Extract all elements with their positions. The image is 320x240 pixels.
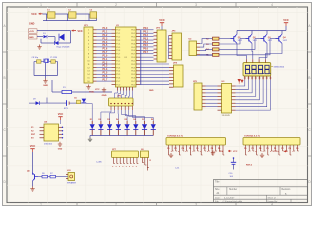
svg-text:P1.0: P1.0	[103, 55, 108, 57]
svg-text:P0.0: P0.0	[131, 57, 135, 59]
svg-text:P6: P6	[296, 148, 298, 150]
wire VCC rail to caps	[43, 13, 91, 15]
svg-text:Rege 1N4148: Rege 1N4148	[57, 46, 71, 48]
svg-text:2: 2	[115, 203, 117, 207]
capacitor C1	[47, 10, 55, 19]
svg-text:1: 1	[40, 203, 42, 207]
svg-text:VCC: VCC	[31, 12, 37, 16]
ground (JP1)	[86, 85, 100, 92]
LED D5	[124, 119, 129, 135]
wire display bottom pins	[244, 76, 272, 80]
battery BT1	[64, 100, 69, 110]
svg-text:D7: D7	[142, 119, 144, 121]
net label (C10 right)	[246, 165, 253, 167]
svg-text:P0: P0	[167, 148, 169, 150]
connector JP5	[193, 81, 206, 110]
power port (display left)	[238, 79, 242, 84]
capacitor C10	[231, 157, 236, 169]
resistor R1	[62, 87, 72, 93]
resistor R6	[42, 173, 48, 178]
svg-text:9012: 9012	[268, 40, 272, 42]
crystal Y1	[44, 59, 49, 63]
svg-text:P0.3: P0.3	[131, 67, 135, 69]
svg-text:D8: D8	[151, 119, 153, 121]
net labels P1.0-P1.7	[103, 28, 108, 81]
connector JP6 LED bar	[109, 96, 134, 110]
svg-text:P2: P2	[252, 148, 254, 150]
resistor R5	[206, 53, 219, 56]
svg-text:P1.0: P1.0	[116, 84, 120, 86]
wire VCC to Q5	[32, 152, 34, 173]
svg-text:File:: File:	[215, 201, 220, 203]
capacitor C3	[90, 10, 97, 19]
svg-text:P0.1: P0.1	[131, 60, 135, 62]
transistor Q2 9012	[246, 34, 258, 43]
power port VCC (transistor rail)	[283, 18, 289, 26]
svg-text:P0.5: P0.5	[131, 47, 135, 49]
svg-text:D3: D3	[107, 119, 109, 121]
svg-text:P1.2: P1.2	[103, 35, 108, 37]
wire bus JP1 to U1	[97, 30, 112, 81]
svg-text:P0.1: P0.1	[143, 32, 148, 34]
svg-text:P1.6: P1.6	[116, 78, 120, 80]
op IC U1 AT89C52	[112, 25, 141, 87]
svg-text:P2: P2	[174, 148, 176, 150]
label SM410564	[271, 67, 285, 69]
svg-text:P1.7: P1.7	[116, 54, 120, 56]
svg-text:P1.3: P1.3	[103, 66, 108, 68]
svg-text:Title: Title	[215, 181, 220, 184]
resistor R3	[206, 43, 219, 46]
connector J8	[141, 149, 152, 170]
net labels P0.x	[143, 28, 148, 54]
svg-text:P0.0: P0.0	[131, 30, 135, 32]
buzzer LS1	[66, 170, 77, 185]
LED D6	[133, 119, 138, 135]
label C-NET	[96, 162, 103, 164]
wire bus U1 right	[140, 30, 169, 85]
wire U1 to JP6	[115, 91, 133, 99]
svg-text:VCC: VCC	[233, 151, 238, 153]
label DS1302	[44, 143, 53, 145]
power port VCC (JP2)	[159, 18, 165, 30]
svg-text:1: 1	[40, 3, 42, 7]
svg-text:P0: P0	[196, 148, 198, 150]
svg-text:P0.3: P0.3	[143, 38, 148, 40]
svg-text:P1.2: P1.2	[103, 62, 108, 64]
wire U3 right to display staircase	[236, 80, 271, 111]
svg-text:P0.6: P0.6	[131, 50, 135, 52]
svg-text:P1.3: P1.3	[116, 40, 120, 42]
svg-text:9012: 9012	[238, 40, 242, 42]
ground (crystal)	[43, 79, 48, 88]
transistor Q1 9012	[231, 34, 243, 43]
resistor R7	[50, 173, 56, 178]
svg-text:D2: D2	[99, 119, 101, 121]
svg-text:P0.7: P0.7	[131, 81, 135, 83]
svg-text:P0.7: P0.7	[143, 52, 148, 54]
wire JP3 feed	[168, 36, 170, 59]
svg-text:RST-5: RST-5	[246, 165, 253, 167]
svg-text:P1.7: P1.7	[103, 52, 108, 54]
svg-text:P1.2: P1.2	[116, 37, 120, 39]
wire LED cathode rail	[90, 136, 153, 138]
svg-text:VCC: VCC	[273, 151, 278, 153]
svg-text:P0.4: P0.4	[131, 43, 135, 45]
svg-text:4: 4	[271, 203, 273, 207]
LED D4	[116, 118, 121, 135]
svg-text:P0.2: P0.2	[131, 64, 135, 66]
svg-text:GND: GND	[102, 95, 107, 97]
svg-text:SPEAKER: SPEAKER	[67, 182, 77, 185]
ground (power input)	[37, 45, 41, 50]
svg-text:P1.7: P1.7	[103, 79, 108, 81]
svg-text:P1.6: P1.6	[116, 50, 120, 52]
svg-text:9012: 9012	[253, 40, 257, 42]
svg-text:I/O: I/O	[31, 138, 34, 140]
svg-text:9012: 9012	[283, 40, 287, 42]
svg-text:GND: GND	[58, 148, 63, 150]
LED D1	[90, 119, 95, 135]
svg-text:C-485: C-485	[96, 162, 103, 164]
svg-text:P0.2: P0.2	[131, 37, 135, 39]
svg-text:P1.5: P1.5	[116, 47, 120, 49]
svg-text:P6: P6	[266, 148, 268, 150]
connector CON1	[166, 136, 226, 145]
svg-text:4: 4	[271, 3, 273, 7]
svg-text:P0.2: P0.2	[143, 35, 148, 37]
net label C-51 (under CON1)	[175, 167, 180, 169]
svg-text:P1.6: P1.6	[103, 76, 108, 78]
ground (U4)	[58, 142, 63, 151]
svg-text:GND: GND	[43, 85, 48, 87]
power port GND label (left of rail)	[29, 23, 35, 26]
svg-text:P1.4: P1.4	[116, 71, 120, 73]
svg-text:P1.4: P1.4	[116, 43, 120, 45]
wire transistor collectors to display	[237, 43, 282, 59]
svg-text:P0.1: P0.1	[131, 33, 135, 35]
wire CON2 pins	[244, 145, 299, 155]
svg-text:P2: P2	[281, 148, 283, 150]
svg-text:P1.4: P1.4	[103, 68, 108, 71]
svg-text:VCC: VCC	[30, 144, 36, 148]
connector JP1	[84, 25, 97, 83]
svg-text:DS1302: DS1302	[44, 143, 53, 145]
svg-text:P0.6: P0.6	[131, 78, 135, 80]
svg-text:P1.0: P1.0	[103, 28, 108, 30]
svg-text:P1.5: P1.5	[116, 74, 120, 76]
svg-text:GND: GND	[29, 23, 35, 26]
svg-text:VCC: VCC	[95, 89, 100, 91]
ground (U1)	[89, 88, 107, 97]
svg-text:x: x	[116, 166, 117, 168]
svg-text:P0.0: P0.0	[131, 84, 135, 86]
svg-text:3: 3	[195, 3, 197, 7]
wire VCC rail (transistors)	[237, 26, 286, 34]
connector CON2	[243, 136, 300, 145]
svg-text:Number: Number	[229, 188, 237, 191]
svg-text:D6: D6	[133, 119, 135, 121]
LED D3	[107, 119, 112, 135]
svg-text:P1.7: P1.7	[116, 81, 120, 83]
svg-text:P6: P6	[218, 148, 220, 150]
svg-text:GND: GND	[29, 37, 34, 39]
svg-text:D1: D1	[90, 119, 92, 121]
op IC U3 74LS245	[218, 81, 236, 113]
LED D2	[98, 119, 103, 135]
diode D10 (LED left)	[82, 99, 87, 103]
power port VCC (arrow right)	[72, 29, 83, 32]
wire resistors to transistor bases	[219, 39, 279, 55]
wire GND rail under caps	[43, 14, 97, 21]
svg-text:VCC: VCC	[78, 30, 83, 33]
svg-text:P0.6: P0.6	[143, 49, 148, 51]
connector JP2	[154, 28, 167, 62]
wire bottom diode rail	[41, 39, 71, 43]
label 74LS245	[222, 115, 231, 117]
title block	[214, 180, 308, 204]
svg-text:P0.0: P0.0	[143, 28, 148, 30]
power port VCC (buzzer)	[30, 144, 36, 152]
svg-text:C:\Design\clock.ddb: C:\Design\clock.ddb	[223, 201, 243, 203]
net label GND (JP4)	[149, 90, 154, 92]
svg-text:P6: P6	[189, 148, 191, 150]
svg-text:P1.5: P1.5	[103, 45, 108, 47]
svg-text:P1.5: P1.5	[103, 73, 108, 75]
svg-text:x: x	[129, 166, 130, 168]
svg-text:Drawn By:: Drawn By:	[268, 200, 278, 203]
capacitor C2	[68, 10, 76, 19]
svg-text:P1.2: P1.2	[116, 64, 120, 66]
svg-text:P1.0: P1.0	[116, 57, 120, 59]
svg-text:4-Jul-2007: 4-Jul-2007	[224, 197, 235, 199]
connector J1 power input	[29, 29, 38, 39]
svg-text:P0: P0	[244, 148, 246, 150]
connector JP7	[112, 149, 139, 168]
ground (LED rail)	[88, 137, 92, 142]
diode D3	[55, 41, 59, 45]
svg-text:D5: D5	[125, 119, 127, 121]
svg-text:P0.5: P0.5	[143, 45, 148, 47]
svg-text:SM410564: SM410564	[274, 67, 285, 69]
ground (CON2)	[260, 153, 264, 158]
wire JP6 fan to LEDs	[86, 104, 153, 122]
wire battery row	[29, 98, 86, 104]
svg-text:P1.1: P1.1	[116, 60, 120, 62]
svg-text:3: 3	[195, 203, 197, 207]
svg-text:VCC: VCC	[219, 151, 224, 153]
svg-text:VCC: VCC	[159, 18, 165, 22]
resistor R2	[206, 37, 219, 40]
op IC U4 DS1302	[40, 121, 64, 141]
diode D2 (1N4007)	[59, 34, 65, 41]
svg-text:P1.1: P1.1	[116, 33, 120, 35]
svg-text:P1.6: P1.6	[103, 49, 108, 51]
svg-text:x: x	[119, 166, 120, 168]
power port VCC (top-left)	[31, 12, 42, 16]
capacitor C6	[74, 97, 81, 103]
resistor R4	[206, 48, 219, 51]
connector JP3	[169, 31, 182, 60]
svg-text:P2: P2	[203, 148, 205, 150]
wire CON1 pins	[167, 145, 224, 155]
svg-text:P1.0: P1.0	[116, 30, 120, 32]
svg-text:P0.5: P0.5	[131, 74, 135, 76]
diode D1	[43, 33, 47, 38]
svg-text:GND: GND	[149, 90, 154, 92]
svg-text:VCC: VCC	[58, 112, 64, 116]
wire power input top rail	[37, 31, 71, 43]
wire U1 bottom pins	[118, 87, 133, 91]
svg-text:P1.1: P1.1	[103, 32, 108, 34]
svg-text:x: x	[126, 166, 127, 168]
svg-text:Date:: Date:	[215, 196, 221, 199]
transistor Q4 9012	[276, 34, 288, 43]
svg-text:P1.3: P1.3	[116, 67, 120, 69]
connector JP4	[169, 62, 183, 88]
net labels U4 left	[31, 127, 36, 140]
svg-text:74LS245: 74LS245	[222, 115, 231, 117]
svg-text:P0.3: P0.3	[131, 40, 135, 42]
svg-text:x: x	[136, 166, 137, 168]
wire JP5 to U3	[206, 86, 218, 107]
wire U2 to resistors	[200, 39, 213, 55]
display DS1 4-digit 7-segment	[243, 63, 271, 76]
ground (Q5)	[30, 181, 34, 191]
wire display top pins	[247, 59, 266, 62]
svg-text:2: 2	[115, 3, 117, 7]
svg-text:x: x	[132, 166, 133, 168]
wire R5 row extension	[197, 55, 213, 57]
LED D8	[151, 119, 156, 135]
capacitor C4	[32, 57, 42, 63]
svg-text:C8 30p: C8 30p	[32, 57, 39, 59]
capacitor C5	[50, 57, 57, 63]
svg-text:XTAL: XTAL	[89, 90, 95, 93]
svg-text:x: x	[122, 166, 123, 168]
wire Q5 base row	[38, 176, 68, 178]
diode D9 (battery row)	[33, 99, 39, 105]
svg-text:P0.4: P0.4	[143, 41, 148, 44]
svg-text:P1.3: P1.3	[103, 38, 108, 40]
svg-text:Y1 12M: Y1 12M	[50, 57, 57, 59]
wire R1 row	[52, 80, 112, 92]
transistor Q5	[27, 170, 38, 181]
svg-text:P1.4: P1.4	[103, 41, 108, 44]
svg-text:P1.1: P1.1	[103, 59, 108, 61]
svg-text:x: x	[112, 166, 113, 168]
power port VCC (U4)	[58, 112, 64, 124]
svg-text:VCC: VCC	[283, 18, 289, 22]
svg-text:P0.4: P0.4	[131, 71, 135, 73]
svg-text:P0: P0	[274, 148, 276, 150]
LED D7	[142, 119, 147, 135]
svg-text:Size: Size	[215, 189, 220, 191]
ground (CON1)	[169, 151, 215, 158]
svg-text:P0.7: P0.7	[131, 54, 135, 56]
wire crystal loop	[34, 62, 58, 79]
svg-text:Sheet of: Sheet of	[268, 196, 277, 199]
wire power input mid rail	[37, 37, 55, 43]
label 1N4148	[57, 46, 71, 48]
label C10	[229, 173, 234, 178]
op IC U2	[189, 39, 201, 56]
svg-text:Revision: Revision	[282, 189, 292, 191]
svg-text:B: B	[4, 76, 6, 80]
power port VCC (CON2 right)	[273, 150, 287, 153]
svg-text:+12V: +12V	[29, 31, 35, 33]
power port VCC (U3)	[241, 79, 244, 83]
transistor Q3 9012	[261, 34, 273, 43]
power port VCC (CON1 right)	[219, 150, 238, 153]
svg-text:B: B	[308, 76, 310, 80]
